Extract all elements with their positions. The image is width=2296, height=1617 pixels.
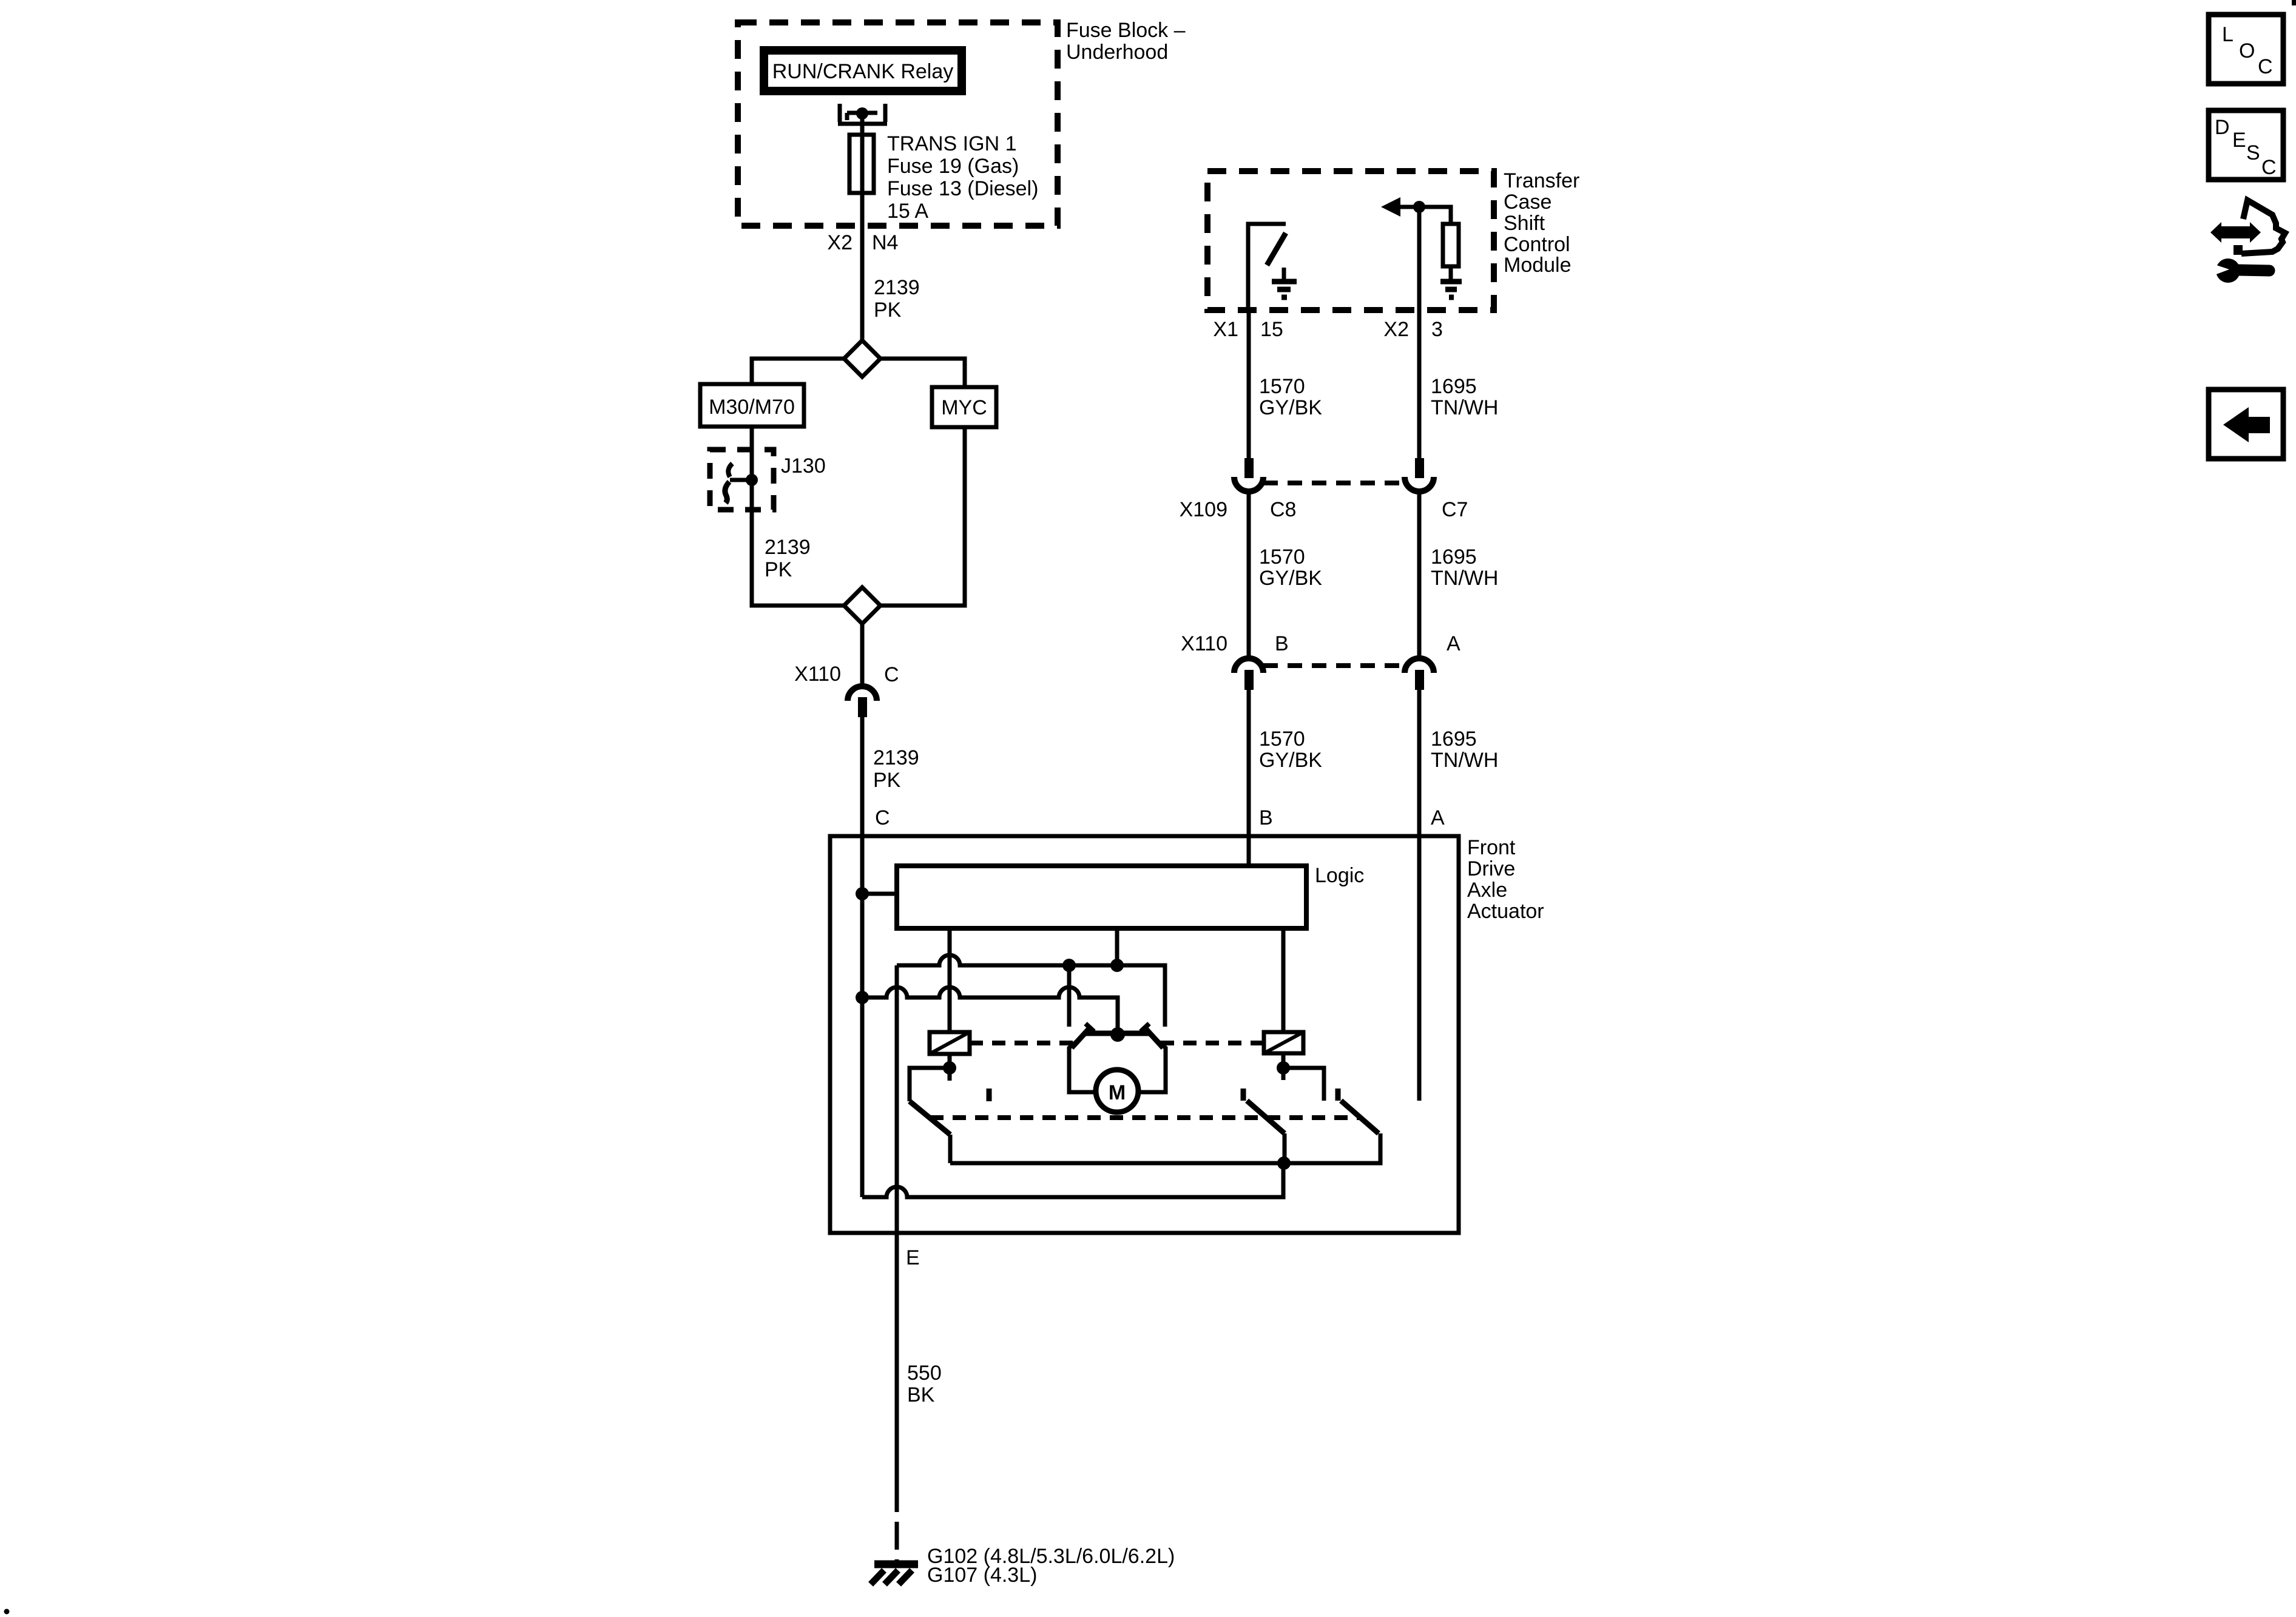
svg-text:J130: J130 — [781, 454, 826, 478]
svg-text:L: L — [2222, 23, 2234, 46]
junction dot J130 — [746, 474, 758, 486]
wire MYC down — [880, 427, 965, 606]
svg-text:Axle: Axle — [1467, 879, 1507, 902]
logic block — [897, 866, 1306, 928]
fuse TRANS IGN 1 15A — [849, 135, 874, 193]
svg-text:BK: BK — [907, 1383, 935, 1406]
J130 grease symbol — [730, 478, 752, 482]
svg-text:C: C — [875, 806, 890, 829]
svg-text:Actuator: Actuator — [1467, 900, 1544, 923]
svg-text:2139: 2139 — [765, 536, 811, 559]
DESC icon box — [2209, 110, 2283, 180]
svg-text:15: 15 — [1260, 318, 1283, 341]
switch common link — [950, 1133, 1380, 1163]
svg-text:B: B — [1259, 806, 1273, 829]
transfer case shift control module dashed box — [1207, 171, 1494, 310]
fuse block MYC — [932, 387, 996, 427]
right relay switch feed — [1281, 1053, 1286, 1080]
svg-text:X110: X110 — [794, 663, 841, 686]
svg-text:E: E — [906, 1246, 920, 1269]
svg-text:C: C — [2261, 156, 2277, 179]
bottom return wire with crossover — [862, 1164, 1283, 1197]
svg-text:X2: X2 — [1383, 318, 1409, 341]
svg-text:15 A: 15 A — [887, 200, 928, 223]
logic center output — [1115, 928, 1119, 965]
svg-text:Control: Control — [1504, 233, 1570, 256]
lower actuation dashed link — [930, 1115, 1361, 1120]
svg-text:1695: 1695 — [1431, 545, 1477, 569]
svg-text:Case: Case — [1504, 191, 1551, 214]
svg-text:RUN/CRANK Relay: RUN/CRANK Relay — [772, 60, 954, 83]
svg-text:1570: 1570 — [1259, 375, 1305, 398]
svg-text:X1: X1 — [1213, 318, 1238, 341]
svg-text:PK: PK — [765, 558, 792, 581]
wire from relay to fuse — [860, 113, 865, 340]
right relay switch blades — [1283, 1133, 1287, 1163]
svg-text:E: E — [2232, 129, 2246, 152]
svg-text:G107 (4.3L): G107 (4.3L) — [927, 1564, 1037, 1587]
wire to MYC — [880, 359, 965, 387]
service icon part outline — [2241, 200, 2285, 254]
svg-text:MYC: MYC — [941, 396, 987, 419]
svg-text:TN/WH: TN/WH — [1431, 396, 1498, 419]
ground symbol internal left — [1282, 268, 1286, 280]
left relay switch — [948, 1054, 952, 1081]
service icon wrench — [2216, 258, 2240, 283]
svg-text:M: M — [1109, 1081, 1126, 1104]
svg-text:C8: C8 — [1270, 498, 1296, 521]
svg-text:GY/BK: GY/BK — [1259, 396, 1322, 419]
svg-text:Underhood: Underhood — [1066, 41, 1168, 64]
svg-text:A: A — [1431, 806, 1445, 829]
svg-text:Transfer: Transfer — [1504, 169, 1579, 192]
wire M30/M70 down through J130 — [750, 427, 754, 587]
splice diamond lower — [844, 587, 880, 624]
svg-text:X109: X109 — [1180, 498, 1227, 521]
svg-text:Drive: Drive — [1467, 857, 1515, 880]
junction dot — [856, 107, 868, 120]
connector X109 pin C7 — [1415, 458, 1424, 478]
svg-text:Shift: Shift — [1504, 212, 1545, 235]
svg-text:3: 3 — [1431, 318, 1443, 341]
wire E 550 BK — [895, 965, 899, 1484]
svg-text:X2: X2 — [827, 231, 853, 254]
motor M — [1096, 1070, 1138, 1112]
relay coil left — [930, 1032, 970, 1054]
relay coil wires from logic — [948, 928, 952, 1032]
wire dashed to ground — [895, 1484, 899, 1562]
relay terminal bracket — [838, 104, 887, 124]
svg-text:GY/BK: GY/BK — [1259, 749, 1322, 772]
fuse block M30/M70 — [700, 384, 804, 427]
svg-text:GY/BK: GY/BK — [1259, 567, 1322, 590]
connector X110 pin B — [1234, 658, 1263, 673]
svg-text:N4: N4 — [872, 231, 898, 254]
svg-text:Logic: Logic — [1315, 864, 1364, 887]
motor bridge top bar — [1086, 1031, 1149, 1036]
switch to ground inside module — [1248, 224, 1286, 310]
svg-text:B: B — [1275, 632, 1289, 655]
signal arrow and resistor inside module — [1417, 207, 1422, 310]
front drive axle actuator box — [830, 836, 1459, 1233]
wire diamond to X110 — [860, 624, 865, 684]
page corner mark — [2292, 0, 2296, 5]
motor bridge outline — [1069, 1033, 1096, 1092]
left fixed contact stub — [1067, 965, 1072, 1027]
svg-text:2139: 2139 — [873, 746, 919, 769]
splice diamond upper — [844, 340, 880, 377]
resistor — [1443, 224, 1459, 266]
bus from C to motor common — [862, 987, 1118, 1035]
svg-text:1570: 1570 — [1259, 545, 1305, 569]
svg-text:TN/WH: TN/WH — [1431, 749, 1498, 772]
splice pack J130 dashed box — [710, 450, 774, 510]
svg-text:PK: PK — [873, 769, 901, 792]
wire 2139 PK to actuator — [860, 717, 865, 837]
relay actuation dashed links — [970, 1041, 1073, 1045]
svg-text:1695: 1695 — [1431, 375, 1477, 398]
svg-text:C: C — [884, 663, 899, 686]
svg-text:S: S — [2246, 141, 2260, 164]
service icon double arrow — [2210, 222, 2261, 243]
page dot — [4, 1609, 10, 1615]
svg-text:TRANS IGN 1: TRANS IGN 1 — [887, 132, 1016, 155]
fuse block underhood dashed box — [738, 22, 1058, 226]
svg-text:Front: Front — [1467, 836, 1516, 859]
connector X110 pin A — [1405, 658, 1434, 673]
relay RUN/CRANK Relay — [764, 50, 962, 91]
svg-text:C7: C7 — [1442, 498, 1468, 521]
connector X109 pin C8 — [1244, 458, 1254, 478]
svg-text:Fuse 13 (Diesel): Fuse 13 (Diesel) — [887, 177, 1038, 200]
svg-text:Module: Module — [1504, 254, 1572, 277]
wire 1570 GY/BK lower — [1247, 690, 1251, 866]
svg-text:X110: X110 — [1181, 632, 1227, 655]
ground symbol internal right — [1440, 279, 1462, 285]
svg-text:Fuse 19 (Gas): Fuse 19 (Gas) — [887, 155, 1019, 178]
svg-text:PK: PK — [874, 299, 902, 322]
LOC icon box — [2209, 15, 2283, 84]
wire 1570 GY/BK middle — [1247, 494, 1251, 656]
svg-text:1695: 1695 — [1431, 727, 1477, 751]
svg-text:Fuse Block –: Fuse Block – — [1066, 19, 1186, 42]
ground G102 G107 — [874, 1561, 918, 1568]
svg-text:M30/M70: M30/M70 — [709, 396, 795, 419]
svg-text:2139: 2139 — [874, 276, 920, 299]
svg-text:D: D — [2215, 116, 2230, 139]
X110 dashed link — [1263, 663, 1406, 668]
wire to M30/M70 — [752, 359, 844, 384]
svg-text:1570: 1570 — [1259, 727, 1305, 751]
wire C into logic — [860, 837, 865, 1197]
wire 1570 GY/BK upper — [1247, 310, 1251, 458]
bridge switch blades — [1072, 1028, 1090, 1048]
X109 dashed link — [1263, 481, 1406, 485]
bus from E with crossover — [897, 955, 1165, 1027]
wire 1695 TN/WH middle — [1417, 494, 1422, 656]
wire 1695 TN/WH upper — [1417, 310, 1422, 458]
svg-text:550: 550 — [907, 1362, 942, 1385]
back arrow icon box — [2209, 390, 2283, 459]
relay coil right — [1264, 1032, 1303, 1053]
svg-text:TN/WH: TN/WH — [1431, 567, 1498, 590]
svg-text:C: C — [2258, 55, 2273, 78]
svg-text:A: A — [1447, 632, 1460, 655]
wire 1695 TN/WH lower — [1417, 690, 1422, 1101]
svg-text:O: O — [2239, 39, 2255, 62]
